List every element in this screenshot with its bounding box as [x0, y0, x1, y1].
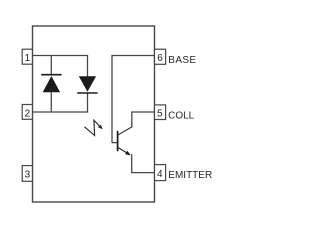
phototransistor Q1 — [112, 127, 132, 155]
pin 3 box — [22, 166, 32, 182]
svg-text:5: 5 — [157, 109, 163, 120]
svg-text:COLL: COLL — [168, 110, 195, 121]
svg-text:3: 3 — [25, 169, 31, 180]
pin 5 box — [155, 105, 166, 120]
wire pin5 COLL to collector — [132, 112, 155, 127]
pin 4 box — [155, 165, 166, 181]
wire left diode top lead — [50, 56, 52, 75]
diode D2 (right LED, cathode down) — [77, 76, 97, 93]
base bar — [117, 131, 119, 151]
emitter stroke — [118, 148, 130, 155]
wire right diode bottom lead — [87, 93, 89, 112]
svg-text:BASE: BASE — [168, 55, 196, 66]
pin 6 box — [155, 49, 166, 64]
emitter arrowhead — [125, 151, 131, 156]
svg-text:2: 2 — [25, 108, 31, 119]
base lead — [112, 142, 117, 144]
svg-text:EMITTER: EMITTER — [168, 170, 212, 181]
wire pin1 to LED tops — [33, 55, 88, 57]
package outline — [33, 26, 155, 202]
wire pin6 BASE to transistor base — [112, 56, 155, 143]
svg-text:4: 4 — [157, 169, 163, 180]
light arrow — [85, 120, 103, 135]
wire left diode bottom lead — [50, 92, 52, 112]
pin 2 box — [22, 105, 32, 120]
svg-text:1: 1 — [25, 53, 31, 64]
collector stroke — [118, 127, 132, 135]
diode D1 (left LED, cathode up) — [41, 75, 61, 93]
wire right diode top lead — [87, 55, 89, 77]
wire pin4 EMITTER to emitter — [132, 154, 155, 172]
pin 1 box — [22, 49, 32, 64]
wire pin2 to LED bottoms — [33, 111, 89, 113]
svg-text:6: 6 — [157, 53, 163, 64]
